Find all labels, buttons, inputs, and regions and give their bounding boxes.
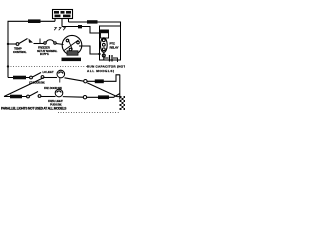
wire label BLACK (left) xyxy=(28,19,41,23)
label PTC relay xyxy=(110,42,119,50)
ground wire (dashed) xyxy=(8,66,88,68)
thermostat switch S1 terminal xyxy=(16,43,19,46)
wire row 1 after lamp xyxy=(65,78,84,81)
wire row 2 to bus xyxy=(87,94,120,98)
relay lead down xyxy=(103,52,105,60)
pin 2 lead xyxy=(61,19,63,27)
wire row 1 to bus xyxy=(87,75,120,82)
wire compressor to relay xyxy=(79,46,100,54)
page edge dotted rule xyxy=(58,112,120,114)
right bus wire xyxy=(119,75,121,100)
svg-text:LO LIGHT: LO LIGHT xyxy=(43,70,54,74)
pin arrowheads xyxy=(54,28,65,31)
page edge hatch block xyxy=(120,96,126,110)
wire label (row 1 right) xyxy=(95,79,104,83)
run capacitor C1 xyxy=(105,58,118,62)
wire to compressor xyxy=(56,44,64,45)
label freezer light xyxy=(48,99,63,106)
compressor terminal R xyxy=(77,41,80,44)
label freezer control (3 lines) xyxy=(37,46,58,57)
svg-text:PARALLEL LIGHTS NOT USED AT AL: PARALLEL LIGHTS NOT USED AT ALL MODELS xyxy=(1,107,66,111)
terminal block TB1 (plug, top view) xyxy=(53,10,73,19)
pin 1 lead xyxy=(54,19,56,22)
relay terminal 3 xyxy=(102,48,105,51)
label frz door switch xyxy=(44,86,62,90)
wire label (top right) xyxy=(87,20,98,23)
wire label (row 2 right) xyxy=(98,95,109,99)
wire control row xyxy=(8,43,16,45)
relay bottom terminal xyxy=(102,54,105,57)
junction node (relay box) xyxy=(98,53,100,55)
door switch S3 blade xyxy=(30,92,39,97)
svg-text:RELAY: RELAY xyxy=(110,46,119,50)
compressor terminal cover xyxy=(67,51,78,55)
relay terminal 2 xyxy=(102,43,105,46)
lamp LP1 xyxy=(57,70,65,78)
crossover wire (row1 to row2 right) xyxy=(87,83,120,97)
label compressor xyxy=(62,58,82,62)
compressor internal windings xyxy=(64,40,79,51)
relay enclosure box xyxy=(100,26,121,60)
junction node (ground tap) xyxy=(7,65,9,67)
pin 3 lead xyxy=(68,19,70,23)
wire N top right to relay box xyxy=(69,22,121,26)
label lo light xyxy=(43,70,54,74)
relay terminal 1 xyxy=(102,39,105,42)
door switch S2 terminal b xyxy=(41,76,44,79)
label run capacitor (not all models) xyxy=(87,64,126,73)
tick on control row xyxy=(39,39,41,44)
wire from pin2 to overload xyxy=(62,27,100,34)
relay K1 body xyxy=(100,38,107,52)
svg-text:CONTROL: CONTROL xyxy=(13,50,27,54)
svg-text:ALL MODELS): ALL MODELS) xyxy=(87,69,115,73)
wire L1 left supply xyxy=(8,21,55,77)
door switch S2 blade xyxy=(33,73,42,78)
junction node (left bus / control row) xyxy=(7,43,9,45)
thermostat switch S1 blade xyxy=(19,39,28,44)
caption bar xyxy=(1,107,66,111)
overload protector bump xyxy=(44,42,46,44)
wire label tick (pin2 run) xyxy=(78,25,82,28)
compressor terminal C xyxy=(69,48,72,51)
wire light row 1 xyxy=(8,77,30,79)
wire row 1 to lamp xyxy=(44,77,57,79)
lamp LP1 base tick xyxy=(59,78,61,83)
thermostat switch S1 arrow xyxy=(29,39,34,43)
row 2 terminal xyxy=(83,96,86,99)
door switch S3 terminal b xyxy=(38,95,41,98)
compressor terminal S xyxy=(66,39,69,42)
row 1 terminal xyxy=(84,80,87,83)
svg-text:IN 75° F.: IN 75° F. xyxy=(40,52,49,56)
label refr light switch xyxy=(29,81,45,85)
label temp control (2 lines) xyxy=(13,47,27,55)
wire label (row 2 left) xyxy=(10,95,22,99)
compressor motor M1 xyxy=(62,35,82,55)
wire control row mid xyxy=(34,43,45,45)
wire light row 2 xyxy=(4,96,27,98)
wire row 2 after lamp xyxy=(63,96,84,99)
terminal block labels xyxy=(54,11,71,17)
overload protector OL1 xyxy=(101,30,109,38)
door switch S2 terminal a xyxy=(30,76,33,79)
wire label (row 1 left) xyxy=(13,76,26,80)
branch wire to row 2 (left diagonal) xyxy=(4,78,44,97)
door switch S3 terminal a xyxy=(27,95,30,98)
lamp LP2 filament xyxy=(57,91,62,93)
wire row 2 to lamp xyxy=(41,96,56,98)
lamp LP1 filament xyxy=(59,72,64,74)
svg-text:RUN CAPACITOR (NOT: RUN CAPACITOR (NOT xyxy=(87,64,125,68)
lamp LP2 xyxy=(55,89,63,97)
